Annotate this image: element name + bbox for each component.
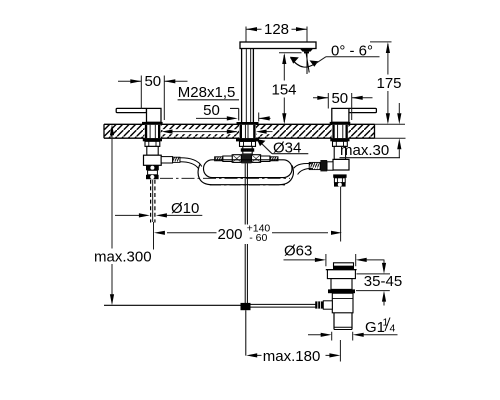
dimension max.30 <box>340 103 402 159</box>
svg-text:max.300: max.300 <box>94 248 152 265</box>
aerator (spout outlet) <box>300 49 313 54</box>
dimension 128 <box>246 21 307 42</box>
tee left hose cylinder <box>223 156 232 162</box>
svg-text:128: 128 <box>264 21 289 38</box>
svg-text:- 60: - 60 <box>249 232 267 244</box>
right handle base flange <box>330 122 351 125</box>
svg-text:Ø10: Ø10 <box>171 200 199 217</box>
spout U (center faucet body) <box>240 42 316 122</box>
dimension max.300 <box>94 124 152 305</box>
svg-text:175: 175 <box>376 75 401 92</box>
svg-text:4: 4 <box>390 323 396 335</box>
deck hatched band <box>104 124 375 138</box>
dimension 175 <box>370 42 402 124</box>
right handle hex nut <box>333 141 348 146</box>
dimension diameter 10 <box>115 200 202 218</box>
drain body <box>332 293 353 313</box>
drain flange <box>326 270 357 290</box>
spout base flange on deck <box>237 122 259 125</box>
dimension 0deg-6deg label <box>316 43 380 64</box>
left valve inlet tails (dashed, Ø10) <box>151 180 155 223</box>
right valve hose crimp (hatched) <box>309 162 320 169</box>
left valve upper body <box>147 146 158 155</box>
dimension diameter 63 <box>284 243 384 267</box>
left handle base flange <box>142 122 163 125</box>
rod junction block <box>241 303 251 310</box>
dimension 50 right handle <box>313 90 373 120</box>
thread arrows in deck (M28x1,5 pointers) <box>162 129 274 134</box>
left valve lower piece <box>146 170 159 179</box>
svg-text:50: 50 <box>203 102 220 119</box>
pop-up rod lower vertical <box>245 310 247 355</box>
svg-text:154: 154 <box>271 82 296 99</box>
pop-up rod upper (double line) <box>245 163 247 303</box>
svg-text:200: 200 <box>218 226 243 243</box>
svg-text:max.30: max.30 <box>340 142 389 159</box>
spout shank through deck <box>239 125 256 138</box>
right valve upper body <box>334 146 345 159</box>
right valve lower piece <box>334 183 346 187</box>
tee left hose crimp (hatched) <box>215 157 223 161</box>
left handle hex nut <box>145 141 160 146</box>
dimension 154 <box>271 53 301 125</box>
right handle centre extension line (for 200 dim) <box>340 187 342 242</box>
hose loop inner <box>204 160 293 178</box>
svg-text:50: 50 <box>144 73 161 90</box>
left handle lever <box>116 108 161 122</box>
dimension 200 +140/-60 <box>154 222 343 250</box>
label Ø34 with leader <box>257 139 309 157</box>
tee right hose cylinder <box>261 156 270 162</box>
drain pop-up cap <box>333 263 354 270</box>
right valve outlet cylinder <box>327 162 333 170</box>
spout stream line 6deg <box>306 53 309 73</box>
dimension max.180 <box>246 348 340 365</box>
tailpipe extension stubs for G1 1/4 <box>332 332 353 341</box>
tee fitting center block <box>241 154 251 164</box>
tee right hose crimp (hatched) <box>270 157 278 161</box>
svg-text:M28x1,5: M28x1,5 <box>178 84 236 101</box>
hose from right valve <box>294 164 313 175</box>
tee left union nut <box>232 155 241 163</box>
hose loop outer sweep <box>198 165 293 185</box>
right valve block <box>333 159 349 170</box>
drain tailpipe <box>334 313 352 330</box>
left valve outlet cylinder <box>161 157 172 163</box>
right valve elbow collar <box>320 160 327 171</box>
pop-up rod horizontal <box>104 304 317 307</box>
tee right union nut <box>252 155 261 163</box>
left valve check nut <box>146 165 159 170</box>
drain seal locknut <box>328 289 355 293</box>
left handle locknut <box>143 138 162 141</box>
spout shank below nut <box>241 146 254 154</box>
dimension 35-45 <box>356 260 402 306</box>
svg-text:50: 50 <box>331 90 348 107</box>
left valve hose crimp (hatched) <box>173 157 180 162</box>
right valve check nut <box>333 174 346 182</box>
svg-text:Ø63: Ø63 <box>284 243 312 260</box>
label M28x1,5 with leader <box>178 84 239 120</box>
drain lever knob <box>315 301 323 308</box>
left handle shank through deck <box>144 125 160 138</box>
spout stream line 0deg <box>306 53 308 75</box>
svg-text:35-45: 35-45 <box>364 273 402 290</box>
svg-text:1: 1 <box>383 317 389 329</box>
spout hex nut <box>240 141 256 146</box>
dimension 50 centre <box>196 102 271 121</box>
drain centre extension line (for max.180) <box>339 340 341 362</box>
right handle shank through deck <box>332 125 348 138</box>
deck reference extension lines (right, for max.30) <box>375 124 406 138</box>
spout lower flange nut below deck <box>236 138 259 141</box>
right handle locknut <box>330 138 349 141</box>
svg-text:max.180: max.180 <box>263 348 321 365</box>
label G1 1/4 <box>308 317 398 337</box>
hose centerline (dash-dot) <box>160 177 290 179</box>
dimension 50 left handle <box>118 73 188 120</box>
left valve block <box>144 155 162 165</box>
drain lever socket <box>323 301 332 309</box>
angle arc with arrowheads <box>290 57 318 67</box>
right handle lever <box>332 108 377 122</box>
hose from left valve <box>180 158 202 169</box>
